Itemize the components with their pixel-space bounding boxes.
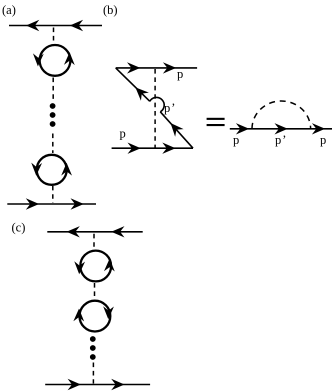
ellipsis dot 1 (a): [50, 103, 56, 109]
wire: dashed propagator (c) segment 1: [93, 234, 95, 251]
fermion loop 2 of (c): [80, 301, 111, 332]
svg-text:p’: p’: [164, 101, 176, 115]
fermion loop 2 of (a): [37, 155, 67, 185]
arrowhead right #1 on bottom line (a): [26, 198, 39, 209]
arrowhead on loop 1 (c) right (ccw, pointing up): [104, 259, 115, 272]
arrowhead on loop 2 (c) left (cw, pointing up): [73, 309, 84, 322]
wire: top fermion line of (c): [47, 231, 142, 233]
hop arc over dashed line in (b): [150, 97, 164, 111]
wire: top fermion line of (b): [116, 67, 197, 69]
svg-text:p: p: [177, 67, 183, 81]
arrowhead right #1 RHS: [236, 123, 249, 134]
svg-text:(a): (a): [2, 3, 16, 17]
wire: dashed propagator (c) segment 2: [94, 283, 96, 300]
arrowhead right #2 on top line (b): [163, 62, 176, 73]
arrowhead on loop 2 left (ccw, pointing down): [31, 163, 42, 176]
svg-text:(b): (b): [103, 3, 118, 17]
ellipsis dot 3 (a): [50, 121, 56, 127]
arrowhead right #2 on bottom line (c): [111, 379, 124, 390]
arrowhead right #3 RHS: [312, 123, 325, 134]
fermion loop 1 of (c): [80, 251, 111, 282]
ellipsis dot 2 (a): [50, 112, 56, 118]
svg-text:(c): (c): [12, 221, 26, 235]
arrowhead on loop 1 left (ccw, pointing down): [33, 53, 44, 66]
wire: top fermion line of (a): [9, 25, 102, 27]
svg-text:p’: p’: [275, 133, 287, 147]
fermion loop 1 of (a): [40, 45, 71, 76]
wire: upper diagonal fermion line of (b): [116, 68, 150, 101]
arrowhead right #1 on bottom line (b): [128, 143, 141, 154]
arrowhead on loop 2 (c) right (cw, pointing down): [103, 306, 114, 319]
arrowhead left #2 on top line (a): [70, 20, 83, 31]
arrowhead right #1 on bottom line (c): [68, 379, 81, 390]
svg-text:p: p: [120, 127, 126, 141]
wire: dashed propagator (a) segment 4: [52, 186, 54, 203]
arrowhead on loop 1 right (ccw, pointing up): [64, 52, 75, 65]
svg-text:p: p: [233, 133, 239, 147]
arrowhead right #2 on bottom line (b): [162, 143, 175, 154]
wire: bottom fermion line of (b): [112, 147, 193, 149]
wire: bottom fermion line of (a): [7, 203, 96, 205]
arrowhead on loop 2 right (ccw, pointing up): [61, 163, 72, 176]
equals sign bar 2: [207, 124, 225, 126]
wire: dashed propagator (a) segment 3: [52, 134, 54, 154]
arrowhead on loop 1 (c) left (ccw, pointing down): [74, 261, 85, 274]
arrowhead on lower diagonal (pointing up-left): [166, 119, 183, 137]
wire: dashed propagator (a) segment 1: [53, 28, 55, 46]
ellipsis dot 2 (c): [90, 345, 96, 351]
wire: dashed propagator (a) segment 2: [52, 78, 54, 103]
wire: bottom fermion line of (c): [45, 384, 150, 386]
ellipsis dot 3 (c): [90, 354, 96, 360]
wire: fermion line RHS: [230, 128, 332, 130]
svg-text:p: p: [320, 133, 326, 147]
arrowhead right #2 on bottom line (a): [71, 198, 84, 209]
arrowhead right #2 RHS: [275, 123, 288, 134]
arrowhead left #1 on top line (a): [26, 20, 39, 31]
wire: lower diagonal fermion line of (b): [160, 112, 193, 148]
arrowhead left #1 on top line (c): [67, 226, 80, 237]
arrowhead on upper diagonal (pointing up-left): [131, 83, 148, 100]
wire: dashed propagator (c) segment 3: [92, 363, 94, 384]
arrowhead left #2 on top line (c): [111, 226, 124, 237]
equals sign bar 1: [207, 118, 225, 120]
wire: dashed propagator of (b): [154, 69, 156, 148]
ellipsis dot 1 (c): [90, 336, 96, 342]
arrowhead right #1 on top line (b): [127, 62, 140, 73]
dashed propagator arc RHS: [252, 101, 311, 129]
